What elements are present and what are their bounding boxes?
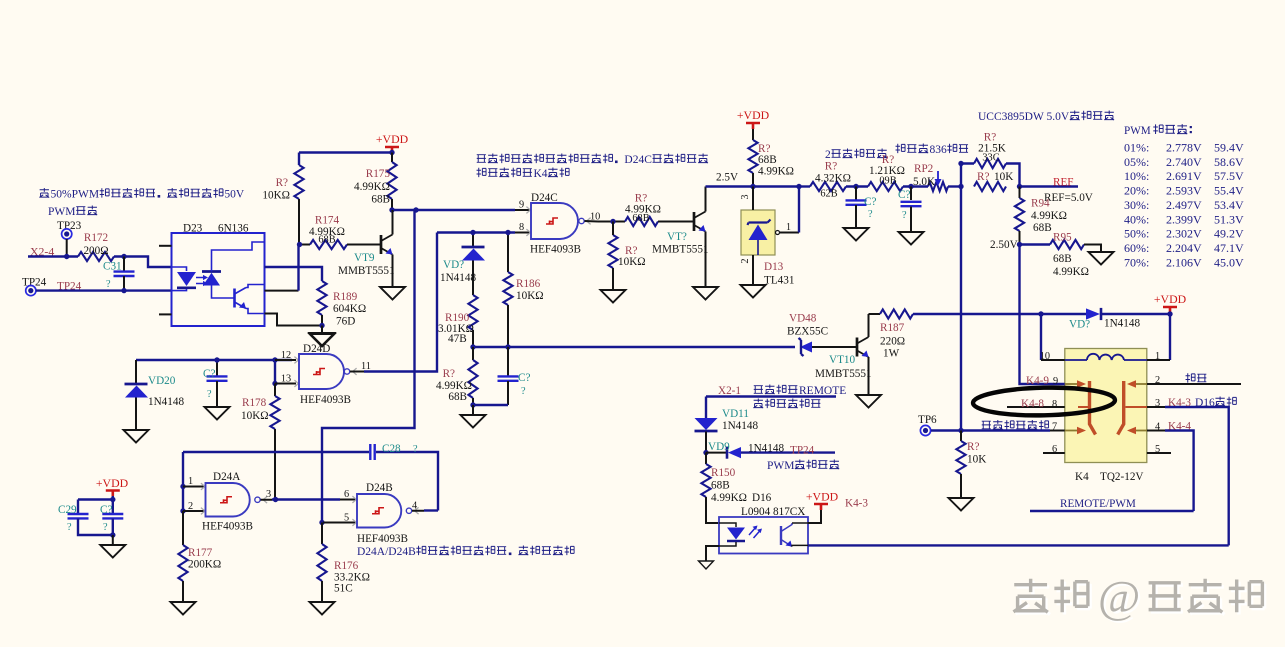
svg-text:?: ? — [902, 210, 907, 221]
node D24A output junction — [273, 497, 278, 502]
svg-text:50%PWM: 50%PWM — [51, 189, 100, 201]
svg-text:10KΩ: 10KΩ — [241, 410, 269, 422]
capacitor C? (timing) — [498, 347, 531, 405]
wire D16 output to K4-3 — [808, 544, 1229, 546]
svg-text:20%:: 20%: — [1124, 184, 1149, 198]
capacitor C31 — [103, 257, 135, 291]
D24C pin10 output stub — [585, 212, 601, 223]
svg-text:BZX55C: BZX55C — [787, 326, 828, 338]
power +VDD (decoupling) — [96, 476, 129, 497]
resistor R? 10K (REF row) — [974, 171, 1013, 191]
annotation: measured 836 ohm — [896, 144, 969, 156]
node RP2 output junction — [958, 184, 963, 189]
svg-text:+VDD: +VDD — [737, 108, 770, 122]
svg-text:55.4V: 55.4V — [1214, 184, 1244, 198]
svg-text:R95: R95 — [1053, 232, 1072, 244]
svg-text:6N136: 6N136 — [218, 223, 249, 235]
svg-text:?: ? — [413, 444, 418, 455]
svg-text:C?: C? — [100, 504, 112, 516]
svg-text:K4-8: K4-8 — [1021, 398, 1044, 410]
svg-text:836: 836 — [930, 144, 948, 156]
TL431 pin3 lead — [740, 187, 753, 211]
svg-text:R?: R? — [276, 177, 288, 189]
resistor R172 200ohm — [78, 232, 114, 261]
svg-text:1: 1 — [786, 222, 791, 233]
label REF=5.0V — [1044, 192, 1093, 204]
node TP6 junction — [958, 428, 963, 433]
net label REF — [1053, 177, 1074, 189]
ground bus load — [949, 498, 974, 511]
ground TL431 — [741, 285, 766, 298]
annotation: UCC3895DW reference — [978, 111, 1114, 123]
svg-text:TQ2-12V: TQ2-12V — [1100, 471, 1144, 483]
TL431 D13 body — [741, 210, 794, 287]
optocoupler D16 L0904 817CX body — [719, 492, 808, 554]
resistor R? 4.32K 62B — [799, 161, 868, 200]
svg-text:VT10: VT10 — [829, 354, 856, 366]
node D24A pin1 junction — [180, 484, 185, 489]
svg-text:X2-1: X2-1 — [718, 385, 741, 397]
annotation: D24C note line2 — [477, 168, 570, 180]
svg-text:1N4148: 1N4148 — [748, 443, 784, 455]
svg-text:1W: 1W — [883, 348, 900, 360]
node D24B pin5 junction — [319, 520, 324, 525]
node D24C output junction — [610, 219, 615, 224]
annotation: 50% PWM input note — [39, 188, 244, 200]
svg-text:PWM: PWM — [1124, 125, 1151, 137]
svg-text:70%:: 70%: — [1124, 255, 1149, 269]
relay pin 9 label — [1026, 375, 1058, 387]
wire R187 to relay coil row — [913, 313, 1041, 315]
svg-text:7: 7 — [1052, 422, 1057, 433]
relay pin 3 lead — [1147, 397, 1229, 545]
svg-text:10KΩ: 10KΩ — [516, 290, 544, 302]
ground below caps — [100, 535, 125, 558]
svg-text:10KΩ: 10KΩ — [262, 190, 290, 202]
annotation: high level shuts power — [753, 399, 820, 409]
ground below R189 — [310, 326, 335, 346]
svg-text:604KΩ: 604KΩ — [333, 303, 366, 315]
capacitor C29 — [58, 504, 89, 533]
ground below R176 — [310, 602, 335, 615]
svg-text:1: 1 — [1155, 351, 1160, 362]
resistor R? 4.99K (base) — [625, 193, 693, 227]
capacitor C2? — [203, 360, 228, 407]
svg-text:D24C: D24C — [531, 192, 558, 204]
wire cap rail bottom — [78, 519, 113, 536]
svg-text:47.1V: 47.1V — [1214, 241, 1244, 255]
relay pin 2 lead (unused) — [1147, 375, 1241, 386]
svg-text:R176: R176 — [334, 560, 359, 572]
svg-text:R178: R178 — [242, 397, 267, 409]
svg-text:VD?: VD? — [443, 259, 464, 271]
svg-text:REF=5.0V: REF=5.0V — [1044, 192, 1093, 204]
port X2-1 label — [718, 385, 741, 397]
wire bias row to VD48 — [473, 346, 795, 348]
svg-text:68B: 68B — [448, 391, 467, 403]
node filter C1 junction — [853, 184, 858, 189]
svg-text:TP6: TP6 — [918, 414, 937, 426]
svg-text:51.3V: 51.3V — [1214, 212, 1244, 226]
svg-text:2.5V: 2.5V — [716, 172, 738, 184]
D24D pin11 output stub — [350, 361, 371, 372]
relay contact left pole — [1065, 380, 1096, 434]
ground below R177 — [171, 602, 196, 615]
label current share bus signal — [982, 420, 1057, 432]
D24B pin4 output stub — [412, 501, 424, 512]
svg-text:HEF4093B: HEF4093B — [530, 244, 581, 256]
node relay coil junction — [1038, 311, 1043, 316]
svg-text:68B: 68B — [711, 480, 730, 492]
svg-text:C?: C? — [203, 368, 215, 380]
highlight ellipse around K4-8 — [973, 386, 1116, 417]
svg-text:4.99KΩ: 4.99KΩ — [758, 166, 794, 178]
D24A pin3 output stub — [261, 489, 273, 500]
svg-text:01%:: 01%: — [1124, 141, 1149, 155]
wire D24B output to C28 — [424, 509, 438, 511]
label D16 optocoupler — [1195, 397, 1236, 409]
svg-text:D13: D13 — [764, 261, 784, 273]
diode VD20 1N4148 — [125, 360, 185, 430]
svg-text:D16: D16 — [1195, 397, 1215, 409]
transistor VT9 MMBT5551 — [338, 210, 395, 287]
node C31 bottom junction — [121, 288, 126, 293]
svg-text:REMOTE/PWM: REMOTE/PWM — [1060, 498, 1136, 510]
resistor R177 200K — [178, 511, 221, 602]
D24B pin5 stub — [322, 513, 357, 524]
D23 photodiode — [202, 242, 265, 298]
svg-text:K4-3: K4-3 — [845, 498, 868, 510]
capacitor C28 — [370, 443, 438, 511]
nand gate D24D HEF4093B — [294, 343, 356, 406]
table: PWM duty cycle header — [1124, 124, 1192, 137]
node TL431 top junction — [750, 184, 755, 189]
nand gate D24C HEF4093B — [526, 192, 590, 256]
node VDD cap junction top — [110, 497, 115, 502]
svg-text:?: ? — [868, 209, 873, 220]
test point TP24 port — [26, 286, 36, 296]
D23 unused stubs — [159, 246, 172, 315]
resistor R94 4.99K — [1015, 187, 1067, 245]
port X2-4 label — [30, 245, 54, 259]
svg-text:?: ? — [67, 522, 72, 533]
svg-text:2.593V: 2.593V — [1166, 184, 1202, 198]
svg-text:68B: 68B — [632, 213, 649, 224]
ground below C2 — [205, 407, 230, 420]
svg-text:50V: 50V — [224, 189, 245, 201]
svg-text:MMBT5551: MMBT5551 — [338, 265, 395, 277]
net label K4-3 — [845, 498, 868, 510]
svg-text:R175: R175 — [366, 168, 391, 180]
capacitor C? (filter 2) — [898, 187, 922, 233]
resistor R95 68B — [1020, 232, 1102, 279]
svg-text:VD?: VD? — [1069, 319, 1090, 331]
svg-text:?: ? — [103, 522, 108, 533]
svg-text:68B: 68B — [1053, 253, 1072, 265]
svg-text:R186: R186 — [516, 278, 541, 290]
wire D23 emitter to ground node — [265, 314, 323, 326]
svg-text:9: 9 — [519, 200, 524, 211]
svg-text:C?: C? — [864, 196, 876, 208]
net label PWM input — [48, 206, 97, 218]
svg-text:R94: R94 — [1031, 198, 1050, 210]
svg-text:UCC3895DW 5.0V: UCC3895DW 5.0V — [978, 111, 1070, 123]
nand gate D24A HEF4093B — [201, 471, 267, 533]
svg-text:2.740V: 2.740V — [1166, 155, 1202, 169]
svg-text:68B: 68B — [758, 154, 777, 166]
node D24A pin2 junction — [180, 508, 185, 513]
ground VT9 emitter — [380, 287, 405, 300]
resistor R? 10K pullup — [262, 153, 303, 245]
ground R95 — [1089, 252, 1114, 265]
svg-text:D24A: D24A — [213, 471, 240, 483]
node VT9 collector junction — [389, 207, 418, 212]
node C2 junction — [214, 357, 219, 362]
wire TP24 row — [36, 289, 172, 291]
svg-text:R172: R172 — [84, 232, 108, 244]
svg-text:200KΩ: 200KΩ — [188, 559, 221, 571]
svg-text:5: 5 — [344, 513, 349, 524]
svg-text:MMBT5551: MMBT5551 — [652, 244, 709, 256]
svg-text:2.691V: 2.691V — [1166, 169, 1202, 183]
svg-text:+VDD: +VDD — [806, 490, 839, 504]
svg-text:1N4148: 1N4148 — [722, 420, 758, 432]
D23 LED — [172, 267, 197, 291]
svg-text:R187: R187 — [880, 322, 905, 334]
diode VD9 1N4148 — [706, 441, 835, 459]
ground timing network — [461, 405, 486, 428]
svg-text:50%:: 50%: — [1124, 227, 1149, 241]
svg-text:HEF4093B: HEF4093B — [300, 394, 351, 406]
svg-text:2: 2 — [740, 259, 751, 264]
svg-text:49.2V: 49.2V — [1214, 227, 1244, 241]
svg-text:2: 2 — [188, 501, 193, 512]
svg-text:C29: C29 — [58, 504, 77, 516]
svg-text:D24C: D24C — [624, 154, 652, 166]
wire D24D input row — [136, 359, 292, 361]
svg-text:2.106V: 2.106V — [1166, 255, 1202, 269]
svg-text:2.302V: 2.302V — [1166, 227, 1202, 241]
node R186 top junction — [505, 230, 510, 235]
resistor R187 220ohm 1W — [869, 309, 914, 359]
node TL431 ref junction — [796, 184, 801, 189]
wire D24A left rail — [182, 452, 184, 511]
node trim top junction — [958, 161, 963, 166]
svg-text:HEF4093B: HEF4093B — [202, 521, 253, 533]
net label TP24 — [57, 281, 82, 293]
svg-text:RP2: RP2 — [914, 163, 933, 175]
svg-text:2.50V: 2.50V — [990, 239, 1018, 251]
resistor R? 1.21K 09B — [868, 154, 928, 191]
net label REMOTE/PWM — [1060, 498, 1136, 510]
wire timing bottom row — [473, 404, 508, 406]
relay K4 TQ2-12V body — [1065, 349, 1147, 484]
svg-text:R177: R177 — [188, 547, 213, 559]
node R190 bottom junction — [470, 344, 475, 349]
svg-text:2: 2 — [825, 149, 831, 161]
node D24D pin13 junction — [272, 381, 277, 386]
TL431 pin2 lead — [740, 255, 753, 285]
svg-text:?: ? — [521, 386, 526, 397]
svg-text:200Ω: 200Ω — [83, 245, 108, 257]
svg-text:33C: 33C — [982, 153, 999, 164]
node R172 output junction — [121, 254, 126, 259]
wire X2-1 input — [706, 397, 836, 419]
svg-text:10K: 10K — [994, 171, 1013, 183]
svg-text:R?: R? — [977, 171, 989, 183]
transistor VT10 MMBT5551 — [815, 314, 872, 395]
svg-text:2.778V: 2.778V — [1166, 141, 1202, 155]
annotation: D24C note line1 — [477, 154, 708, 166]
node filter C2 junction — [908, 184, 913, 189]
node VDD junction — [389, 150, 394, 155]
wire feedback from collector row to D24B pin5 — [322, 210, 415, 523]
svg-text:12: 12 — [281, 350, 291, 361]
svg-text:TL431: TL431 — [764, 275, 794, 287]
svg-text:4: 4 — [1155, 422, 1160, 433]
transistor VT? MMBT5551 — [652, 187, 709, 288]
table: PWM duty cycle rows — [1124, 141, 1244, 270]
svg-text:8: 8 — [519, 222, 524, 233]
wire D24A output row — [272, 498, 340, 500]
resistor R189 604K — [317, 281, 366, 328]
svg-text:60%:: 60%: — [1124, 241, 1149, 255]
test point TP23 label — [57, 220, 82, 232]
annotation: 2nd order low pass filter — [825, 149, 887, 161]
diode VD? 1N4148 (clamp) — [440, 233, 485, 296]
svg-text:C?: C? — [518, 372, 530, 384]
D16 VDD pin — [808, 508, 821, 523]
svg-text:C28: C28 — [382, 443, 401, 455]
svg-text:?: ? — [207, 389, 212, 400]
node REF junction — [1017, 184, 1022, 189]
svg-text:R?: R? — [825, 161, 837, 173]
svg-text:R150: R150 — [711, 467, 736, 479]
ground VT10 emitter — [856, 395, 881, 408]
wire to parallel trim resistors — [961, 164, 974, 187]
annotation: monostable note — [357, 546, 574, 558]
svg-text:4.99KΩ: 4.99KΩ — [354, 181, 390, 193]
svg-text:45.0V: 45.0V — [1214, 255, 1244, 269]
svg-text:5: 5 — [1155, 444, 1160, 455]
annotation: remote input REMOTE — [754, 385, 847, 397]
node 2.50V junction — [1017, 242, 1022, 247]
svg-text:62B: 62B — [820, 189, 837, 200]
svg-text:3: 3 — [740, 195, 751, 200]
capacitor C? (beside C29) — [100, 504, 123, 533]
svg-text:2.497V: 2.497V — [1166, 198, 1202, 212]
svg-text:1N4148: 1N4148 — [1104, 318, 1140, 330]
svg-text:59.4V: 59.4V — [1214, 141, 1244, 155]
svg-text:VD11: VD11 — [722, 408, 749, 420]
node R186 bottom junction — [505, 344, 510, 349]
TL431 pin1 lead — [776, 187, 800, 235]
resistor R176 33.2K — [317, 523, 370, 603]
svg-text:05%:: 05%: — [1124, 155, 1149, 169]
resistor R174 4.99K — [300, 215, 381, 250]
svg-text:76D: 76D — [336, 316, 355, 328]
svg-text:VD9: VD9 — [708, 441, 730, 453]
svg-text:13: 13 — [281, 374, 291, 385]
wire D23 base to R189 — [265, 267, 323, 281]
svg-text:1N4148: 1N4148 — [148, 396, 184, 408]
svg-text:REF: REF — [1053, 177, 1074, 189]
power +VDD (VT9) — [376, 132, 409, 153]
wire D23 collector output — [265, 245, 299, 291]
relay pin 8 lead (floating) — [1007, 398, 1065, 410]
ground below VD20 — [124, 430, 149, 443]
svg-text:4.99KΩ: 4.99KΩ — [711, 492, 747, 504]
D16 light arrows — [749, 526, 762, 539]
power +VDD (relay) — [1154, 292, 1187, 313]
relay pin 4 lead — [1147, 421, 1194, 512]
resistor R? 68B 4.99K (TL431 supply) — [748, 129, 794, 187]
test point TP23 port — [62, 229, 72, 257]
power +VDD (D16) — [806, 490, 839, 511]
svg-text:68B: 68B — [371, 194, 390, 206]
svg-text:K4-9: K4-9 — [1026, 375, 1049, 387]
label 2.50V — [990, 239, 1018, 251]
D16 phototransistor — [781, 523, 808, 547]
wire collector row to D24C pin9 — [392, 209, 515, 211]
svg-text:8: 8 — [1052, 399, 1057, 410]
svg-text:6: 6 — [1052, 444, 1057, 455]
label 2.5V — [716, 172, 738, 184]
svg-text:HEF4093B: HEF4093B — [357, 533, 408, 545]
svg-text:1N4148: 1N4148 — [440, 272, 476, 284]
node D24D pin12 junction — [272, 357, 277, 362]
label empty pin — [1186, 373, 1207, 382]
svg-text:9: 9 — [1053, 376, 1058, 387]
ground below R? 10K — [601, 290, 626, 303]
resistor R178 10K — [241, 384, 280, 500]
wire 2.5V row — [706, 185, 800, 187]
svg-text:68B: 68B — [1033, 222, 1052, 234]
svg-text:2.399V: 2.399V — [1166, 212, 1202, 226]
svg-text:L0904 817CX: L0904 817CX — [741, 506, 805, 518]
svg-text:57.5V: 57.5V — [1214, 169, 1244, 183]
resistor R175 4.99K — [354, 153, 397, 211]
relay pin 6 lead (floating) — [1043, 444, 1065, 455]
D24C pin9 stub — [515, 200, 531, 211]
svg-text:+VDD: +VDD — [376, 132, 409, 146]
relay coil — [1065, 354, 1147, 360]
svg-text:10K: 10K — [967, 454, 986, 466]
svg-text:51C: 51C — [334, 583, 353, 595]
svg-text:40%:: 40%: — [1124, 212, 1149, 226]
wire pin12-pin13 link — [274, 360, 276, 384]
svg-text:2.204V: 2.204V — [1166, 241, 1202, 255]
svg-text:2: 2 — [1155, 375, 1160, 386]
relay pin 5 lead (floating) — [1147, 444, 1171, 455]
svg-text:VT?: VT? — [667, 231, 687, 243]
wire VDD rail top — [299, 151, 392, 153]
ground filter C1 — [844, 228, 869, 241]
ground above D24D — [310, 334, 335, 347]
svg-text:4.99KΩ: 4.99KΩ — [1031, 210, 1067, 222]
svg-text:?: ? — [106, 279, 111, 290]
resistor R186 10K — [503, 233, 543, 348]
diode VD? 1N4148 (flyback) — [1041, 308, 1170, 331]
svg-text:10%:: 10%: — [1124, 169, 1149, 183]
svg-text:+VDD: +VDD — [1154, 292, 1187, 306]
watermark zhihu — [1013, 571, 1264, 624]
D24B pin6 stub — [340, 489, 357, 500]
svg-text:+VDD: +VDD — [96, 476, 129, 490]
svg-text:R174: R174 — [315, 215, 340, 227]
svg-text:53.4V: 53.4V — [1214, 198, 1244, 212]
svg-text:K4-3: K4-3 — [1168, 397, 1191, 409]
